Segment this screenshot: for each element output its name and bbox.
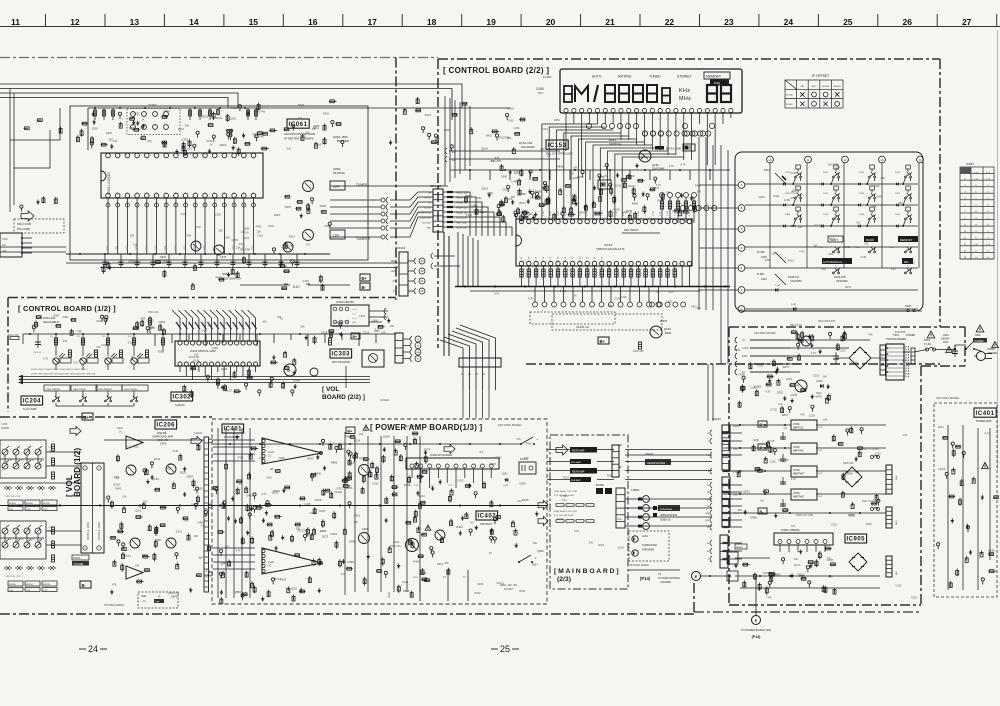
control board 2/2 left border xyxy=(437,59,439,348)
IC061 pin voltage table xyxy=(960,167,994,259)
power amp main bus xyxy=(0,505,547,507)
svg-text:1/4W: 1/4W xyxy=(185,235,191,238)
D147 diode xyxy=(793,307,796,311)
svg-text:IC303 LB1639: IC303 LB1639 xyxy=(336,300,354,304)
svg-text:1/4W: 1/4W xyxy=(259,110,265,113)
svg-text:R151: R151 xyxy=(563,476,570,479)
svg-text:R492: R492 xyxy=(456,525,463,529)
svg-text:R402: R402 xyxy=(526,442,533,445)
svg-text:330: 330 xyxy=(517,500,522,503)
power amp left wires xyxy=(218,428,250,598)
rear amp bar 3 xyxy=(570,468,597,474)
HST box components xyxy=(967,524,969,529)
svg-text:B+: B+ xyxy=(353,335,357,339)
svg-text:C151: C151 xyxy=(615,297,622,300)
svg-text:1K: 1K xyxy=(571,173,574,176)
power amp bottom stubs xyxy=(420,570,468,601)
svg-text:R151: R151 xyxy=(476,197,483,200)
svg-text:4.7K: 4.7K xyxy=(236,549,241,552)
svg-text:5.1M: 5.1M xyxy=(558,211,560,216)
7seg small B xyxy=(662,88,670,103)
svg-text:330: 330 xyxy=(798,226,803,229)
svg-text:1K: 1K xyxy=(131,356,134,359)
F drop wire xyxy=(755,576,757,615)
svg-text:C203: C203 xyxy=(477,583,484,586)
svg-text:C415: C415 xyxy=(180,213,187,216)
svg-text:R321: R321 xyxy=(158,351,165,354)
IC061 bottom bus xyxy=(66,253,330,255)
svg-text:47K: 47K xyxy=(767,596,772,599)
svg-text:19: 19 xyxy=(486,17,496,27)
IC302 bottom pin row xyxy=(178,362,182,366)
horizontal ties at matrix left xyxy=(699,185,738,290)
svg-text:D223: D223 xyxy=(202,114,209,118)
surround speaker dashed box xyxy=(629,531,669,561)
svg-text:11: 11 xyxy=(452,150,455,154)
svg-text:R445: R445 xyxy=(522,498,529,502)
svg-text:R117: R117 xyxy=(532,562,539,566)
svg-text:S155: S155 xyxy=(823,193,829,195)
cb12 right cluster xyxy=(388,318,390,323)
svg-text:R151: R151 xyxy=(845,286,852,289)
svg-text:W151: W151 xyxy=(660,319,668,323)
svg-text:MEMORY: MEMORY xyxy=(706,75,722,79)
svg-text:C335: C335 xyxy=(1,422,8,426)
power amp big opamp R xyxy=(262,548,322,574)
svg-text:RED: RED xyxy=(896,475,898,480)
CN215 stub circles xyxy=(410,336,412,342)
svg-text:D154-158: D154-158 xyxy=(834,275,846,279)
block2 X component row xyxy=(4,566,55,570)
tuner bottom components noise xyxy=(155,261,161,263)
IC301 outer stubs xyxy=(369,311,388,322)
svg-text:330: 330 xyxy=(444,562,449,565)
horizontal bus pair 3 xyxy=(23,382,370,384)
svg-text:330: 330 xyxy=(219,230,224,233)
svg-text:D996: D996 xyxy=(750,515,757,519)
svg-text:1/4W: 1/4W xyxy=(511,180,517,183)
svg-text:C151: C151 xyxy=(831,523,838,526)
svg-text:S158: S158 xyxy=(785,214,791,216)
svg-text:R151: R151 xyxy=(598,544,605,547)
svg-text:100: 100 xyxy=(354,521,359,524)
svg-text:Q619: Q619 xyxy=(220,143,227,147)
svg-text:IC061: IC061 xyxy=(289,121,308,128)
svg-text:6.8: 6.8 xyxy=(245,232,249,235)
B2+ boxed label power xyxy=(758,444,767,450)
svg-text:-7V: -7V xyxy=(392,290,396,293)
wire top bus 2 xyxy=(0,89,452,121)
relay coil xyxy=(521,465,523,471)
IC402 boxed label xyxy=(476,511,498,520)
left border lower stubs xyxy=(431,253,433,269)
rear amp bar 4 xyxy=(570,477,591,482)
IC302 bottom drops xyxy=(180,366,256,380)
svg-text:C415: C415 xyxy=(791,172,798,175)
svg-text:1/4W: 1/4W xyxy=(490,463,496,466)
power amp inter-triangle cluster xyxy=(307,527,309,536)
regulator 1 body xyxy=(791,420,817,430)
tuner left column parts xyxy=(24,127,28,129)
svg-text:R655: R655 xyxy=(280,578,287,582)
svg-text:0.01: 0.01 xyxy=(113,140,118,143)
svg-text:B179-6 100K: B179-6 100K xyxy=(666,147,681,151)
svg-text:Q128: Q128 xyxy=(152,477,159,481)
B- boxed label power xyxy=(758,508,767,514)
svg-text:R811: R811 xyxy=(313,126,320,130)
svg-text:D328: D328 xyxy=(321,330,328,334)
CN233 right stubs xyxy=(730,433,742,559)
display third pin row right xyxy=(684,131,689,136)
key matrix row pins xyxy=(738,182,745,189)
svg-text:4.7K: 4.7K xyxy=(62,340,67,343)
svg-text:6.8: 6.8 xyxy=(116,477,120,480)
IC905 boxed label xyxy=(845,534,867,543)
svg-text:47K: 47K xyxy=(661,218,663,222)
IC905 bottom stubs xyxy=(780,545,825,552)
IC061 lower pin number row xyxy=(106,203,110,207)
7seg M glyph xyxy=(575,86,588,102)
svg-text:C203: C203 xyxy=(840,350,847,353)
svg-text:10K: 10K xyxy=(305,132,310,135)
svg-text:Q661: Q661 xyxy=(465,194,472,198)
display FM inverted box xyxy=(710,80,729,86)
svg-text:R313 22K: R313 22K xyxy=(148,311,159,314)
svg-text:-RED-: -RED- xyxy=(664,331,672,335)
VT062 pins top xyxy=(131,112,136,117)
svg-text:R321: R321 xyxy=(142,554,149,557)
regulator 3 body xyxy=(791,466,817,477)
svg-text:S301 PHONO: S301 PHONO xyxy=(124,389,138,391)
svg-text:S161: S161 xyxy=(895,214,901,216)
svg-text:Q479: Q479 xyxy=(815,395,822,399)
svg-text:0.01: 0.01 xyxy=(174,245,177,250)
svg-text:100: 100 xyxy=(624,211,629,214)
7seg AM glyph xyxy=(564,86,572,102)
svg-text:330: 330 xyxy=(277,316,282,319)
matrix switch grid xyxy=(785,165,912,227)
IC402 pin drops xyxy=(412,469,491,488)
horizontal bus pair 2 xyxy=(23,379,370,381)
svg-text:C973: C973 xyxy=(336,487,343,491)
test wire xyxy=(880,310,922,312)
svg-text:D151: D151 xyxy=(125,555,132,558)
svg-text:POWER: POWER xyxy=(975,340,984,343)
E circle xyxy=(692,572,701,581)
svg-text:OUT: OUT xyxy=(818,473,823,475)
JA01 jack circles xyxy=(632,536,638,542)
svg-text:S16A: S16A xyxy=(854,246,860,249)
matrix switch row4 BAND xyxy=(864,236,878,242)
svg-text:Q205: Q205 xyxy=(243,227,250,230)
svg-text:RV250-1, 100K: RV250-1, 100K xyxy=(86,522,90,540)
vertical wires key matrix to bottom xyxy=(698,137,700,310)
main board resistor row 1 symbols xyxy=(556,504,564,507)
SPEAKER boxed label xyxy=(658,505,680,511)
svg-text:0.01: 0.01 xyxy=(341,573,346,576)
svg-text:RV255: RV255 xyxy=(43,584,50,586)
svg-text:CN233: CN233 xyxy=(712,417,721,421)
regulator 2 body xyxy=(791,443,817,454)
svg-text:6.8: 6.8 xyxy=(306,244,310,247)
CNP152 wires to IC153 xyxy=(443,192,512,236)
svg-text:17: 17 xyxy=(367,17,377,27)
svg-text:47K: 47K xyxy=(693,218,695,222)
svg-text:0.01: 0.01 xyxy=(73,361,78,364)
block1 transistor row B xyxy=(2,460,42,469)
svg-text:D387: D387 xyxy=(53,313,60,317)
svg-text:6.8: 6.8 xyxy=(470,522,474,525)
cb12 left resistor xyxy=(22,334,24,344)
svg-text:D332: D332 xyxy=(777,391,784,395)
svg-text:24: 24 xyxy=(784,17,794,27)
svg-text:R321: R321 xyxy=(289,236,296,239)
svg-text:(P14): (P14) xyxy=(640,576,651,581)
open arrow vol small xyxy=(70,427,81,436)
T901 transformer body xyxy=(886,344,904,380)
CN902 connector mid xyxy=(886,465,892,494)
rear amp bar 1 xyxy=(570,447,597,453)
Q403 transistor xyxy=(435,530,445,540)
svg-text:0.01: 0.01 xyxy=(232,245,235,250)
svg-text:C402P: C402P xyxy=(938,468,946,471)
vertical double bus to connector xyxy=(444,232,449,356)
RV20A VOLUME boxed label xyxy=(72,555,89,560)
svg-text:HST-D091 MODEL: HST-D091 MODEL xyxy=(936,396,960,400)
svg-text:D410: D410 xyxy=(507,107,514,111)
svg-text:R327: R327 xyxy=(274,213,281,217)
power amp central cluster xyxy=(425,455,427,464)
svg-text:10K: 10K xyxy=(617,518,622,521)
svg-text:2SC2785: 2SC2785 xyxy=(895,331,906,334)
power top wire rows xyxy=(750,340,870,372)
svg-text:POWER: POWER xyxy=(906,334,915,337)
svg-text:330: 330 xyxy=(864,243,869,246)
svg-text:6.8: 6.8 xyxy=(491,160,495,163)
block1 inner wires xyxy=(0,455,44,463)
svg-text:SWITCH: SWITCH xyxy=(609,142,621,146)
svg-text:R436 R440 C415 C439: R436 R440 C415 C439 xyxy=(554,491,578,493)
7seg right 8 a xyxy=(707,85,717,102)
bottom page border (dash-dot) xyxy=(0,613,694,615)
svg-text:D863: D863 xyxy=(187,474,194,478)
B- label tuner xyxy=(360,283,370,290)
svg-text:R953: R953 xyxy=(345,435,352,439)
mid connector top wires xyxy=(440,325,496,358)
svg-text:Q205: Q205 xyxy=(759,196,766,199)
minus30 rail xyxy=(733,512,886,514)
IF OFFSET table grid xyxy=(785,80,843,108)
RV253-255 boxed labels xyxy=(8,581,23,586)
junction dots rail 170 xyxy=(469,169,471,171)
junction dots pwramp bus xyxy=(19,504,21,506)
svg-text:D147: D147 xyxy=(791,304,797,306)
svg-text:R402: R402 xyxy=(115,488,122,491)
KEY INPUT bracket xyxy=(622,232,660,234)
svg-text:C415: C415 xyxy=(514,172,521,175)
svg-text:S159: S159 xyxy=(823,214,829,216)
warn triangle 1 xyxy=(927,331,935,338)
svg-text:C203: C203 xyxy=(215,213,222,216)
tuner left column wires xyxy=(10,89,60,213)
B+ label mid xyxy=(598,337,609,344)
svg-text:HST-D501 MODEL: HST-D501 MODEL xyxy=(104,604,125,607)
power board ac-corner bottom xyxy=(921,365,965,367)
svg-text:D469: D469 xyxy=(739,372,746,376)
junction dots bus 286 xyxy=(464,285,466,287)
IC153 bottom pin drops xyxy=(522,266,690,286)
svg-text:TEST: TEST xyxy=(905,304,912,308)
svg-text:B-: B- xyxy=(362,285,367,290)
svg-text:330: 330 xyxy=(185,124,190,127)
svg-text:Q524: Q524 xyxy=(480,210,487,214)
Q901 transistor xyxy=(795,380,807,392)
junction dots cb12 rail xyxy=(29,333,31,335)
block2 transistor row A xyxy=(2,525,42,534)
svg-text:FCD SWITCH: FCD SWITCH xyxy=(222,277,241,281)
B+ label cb12 xyxy=(82,413,93,420)
svg-text:C647: C647 xyxy=(96,319,103,323)
horizontal bus pair 1 xyxy=(23,376,370,378)
svg-text:C415: C415 xyxy=(402,581,409,584)
svg-text:R402: R402 xyxy=(496,456,503,459)
key matrix column pins xyxy=(767,156,774,163)
surround transistor Q205 xyxy=(130,538,140,548)
svg-text:C309 10: C309 10 xyxy=(33,352,42,354)
svg-text:1K: 1K xyxy=(140,126,143,129)
power board bottom border xyxy=(729,604,921,606)
display pin drops xyxy=(566,113,731,170)
svg-text:2SC2785: 2SC2785 xyxy=(778,459,789,462)
tuner front-end component cluster xyxy=(111,144,113,149)
svg-text:HST-D301 MODEL: HST-D301 MODEL xyxy=(754,331,777,335)
svg-text:6.8: 6.8 xyxy=(298,117,302,120)
svg-text:IC061 LA1851N: IC061 LA1851N xyxy=(107,172,111,195)
svg-text:C203: C203 xyxy=(502,188,509,191)
svg-text:TM801: TM801 xyxy=(631,488,640,492)
svg-text:C176: C176 xyxy=(125,446,132,450)
svg-text:CNP90: CNP90 xyxy=(987,348,995,351)
IC402 pin row xyxy=(410,464,414,468)
svg-text:4.7K: 4.7K xyxy=(799,250,804,253)
svg-text:REAR AMP: REAR AMP xyxy=(572,450,585,453)
svg-text:S160: S160 xyxy=(859,214,865,216)
svg-text:6.8: 6.8 xyxy=(501,583,505,586)
svg-text:100: 100 xyxy=(530,197,535,200)
svg-text:C201: C201 xyxy=(30,539,35,541)
svg-text:Q205: Q205 xyxy=(232,239,239,242)
svg-text:27: 27 xyxy=(962,17,972,27)
T901 inner pins xyxy=(887,347,889,349)
svg-text:4.7K: 4.7K xyxy=(765,390,770,393)
T901 winding dotted lines xyxy=(906,346,909,377)
block1 X component row xyxy=(4,486,55,490)
svg-text:IF+50K: IF+50K xyxy=(786,95,794,97)
svg-text:26B: 26B xyxy=(705,520,709,522)
svg-text:RV253: RV253 xyxy=(9,584,16,586)
svg-text:(P14): (P14) xyxy=(752,635,762,639)
key input pins lower xyxy=(660,193,665,198)
Q152 transistor xyxy=(639,150,651,162)
svg-text:B-: B- xyxy=(760,510,764,514)
svg-text:MD: MD xyxy=(801,86,805,88)
svg-text:REAR AMP: REAR AMP xyxy=(572,471,585,474)
svg-text:0.022: 0.022 xyxy=(128,342,135,345)
svg-text:15: 15 xyxy=(249,17,259,27)
HEADPHONES boxed label xyxy=(645,459,671,465)
svg-text:Q171: Q171 xyxy=(794,563,801,567)
svg-text:6.8: 6.8 xyxy=(201,525,205,528)
T901 secondary bar xyxy=(911,348,915,364)
svg-text:B+: B+ xyxy=(362,276,368,281)
CR203 ribbon connector xyxy=(204,437,209,592)
IC153 upper cluster left xyxy=(465,195,467,203)
mode box xyxy=(683,144,695,151)
tuner second rail xyxy=(87,108,89,150)
svg-text:22K: 22K xyxy=(872,206,877,209)
svg-text:C283 C281 C282: C283 C281 C282 xyxy=(5,576,21,578)
top right pins row xyxy=(642,131,647,136)
svg-text:-7V: -7V xyxy=(733,493,737,497)
svg-text:C151: C151 xyxy=(101,344,108,347)
svg-text:Q813: Q813 xyxy=(481,186,488,190)
VT062 pins bottom xyxy=(131,125,136,130)
LPF box L xyxy=(330,181,345,190)
svg-text:2.3K: 2.3K xyxy=(26,590,31,592)
svg-text:S157: S157 xyxy=(895,193,901,195)
svg-text:RV264: RV264 xyxy=(26,503,33,505)
svg-text:Q205: Q205 xyxy=(629,175,636,178)
bridge low xyxy=(849,553,867,571)
svg-text:R473: R473 xyxy=(783,365,790,369)
CF151 dashed boxes xyxy=(530,312,615,324)
vertical wires to CN233 xyxy=(707,364,709,421)
svg-text:IC303: IC303 xyxy=(332,352,351,358)
power amp long verticals xyxy=(355,436,420,592)
svg-text:1/4W: 1/4W xyxy=(374,330,380,333)
key matrix row rails xyxy=(745,184,918,309)
svg-text:5.1M: 5.1M xyxy=(652,211,654,216)
svg-text:C647: C647 xyxy=(751,385,758,389)
svg-text:C164: C164 xyxy=(302,279,309,283)
power input stubs xyxy=(735,337,790,375)
svg-text:5.1M: 5.1M xyxy=(587,211,589,216)
svg-text:330: 330 xyxy=(147,140,152,143)
warn triangle 3 xyxy=(946,347,953,353)
power board right border xyxy=(920,366,922,605)
svg-text:T1.6A: T1.6A xyxy=(924,342,931,346)
CN203 vertical wire xyxy=(344,432,346,595)
CN512 phono connector box xyxy=(0,233,22,257)
IC905 body xyxy=(774,533,833,545)
svg-text:47K: 47K xyxy=(516,438,521,441)
matrix switch row4 MEMORY xyxy=(898,236,918,242)
junction dots power rails xyxy=(739,424,741,426)
vol left edge wires xyxy=(0,482,81,484)
svg-text:MBF7M67: MBF7M67 xyxy=(793,496,805,499)
svg-text:CN213: CN213 xyxy=(396,246,406,250)
svg-text:SURROUND: SURROUND xyxy=(642,543,657,547)
svg-text:D146: D146 xyxy=(761,278,767,281)
svg-text:STEREO: STEREO xyxy=(677,75,691,79)
power board ac-corner top xyxy=(921,326,965,328)
rear amp bar 2 xyxy=(570,459,591,464)
power board left border xyxy=(728,327,730,605)
svg-text:1/4W: 1/4W xyxy=(516,179,522,182)
junction dots tuner bus xyxy=(79,253,81,255)
svg-text:0.022: 0.022 xyxy=(133,113,140,116)
svg-text:F903 T2.1A BP1: F903 T2.1A BP1 xyxy=(862,448,880,451)
